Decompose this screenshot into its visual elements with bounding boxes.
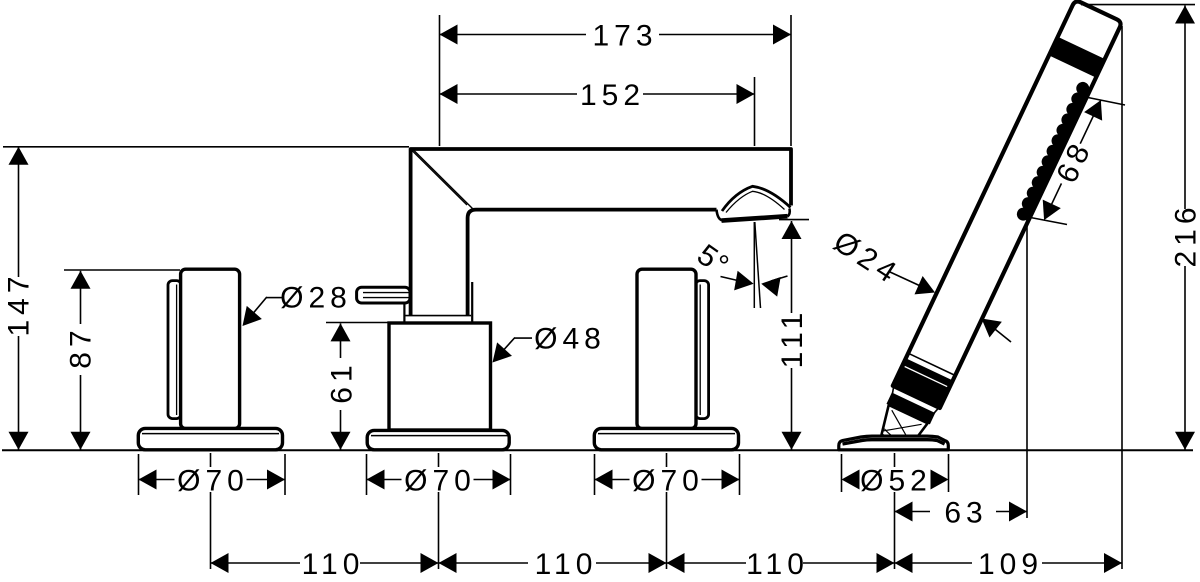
svg-text:152: 152 bbox=[580, 79, 645, 112]
svg-text:63: 63 bbox=[944, 497, 987, 530]
svg-text:Ø52: Ø52 bbox=[860, 465, 932, 498]
svg-text:109: 109 bbox=[978, 548, 1043, 581]
svg-text:111: 111 bbox=[776, 308, 809, 369]
svg-text:Ø70: Ø70 bbox=[404, 465, 476, 498]
svg-text:Ø48: Ø48 bbox=[534, 323, 606, 356]
svg-text:61: 61 bbox=[326, 360, 359, 403]
svg-text:Ø70: Ø70 bbox=[632, 465, 704, 498]
svg-text:Ø28: Ø28 bbox=[280, 282, 352, 315]
svg-text:110: 110 bbox=[302, 548, 365, 581]
svg-text:Ø70: Ø70 bbox=[177, 465, 249, 498]
svg-text:87: 87 bbox=[65, 325, 98, 368]
svg-text:110: 110 bbox=[746, 548, 809, 581]
svg-text:173: 173 bbox=[592, 20, 657, 53]
svg-text:110: 110 bbox=[535, 548, 598, 581]
svg-text:216: 216 bbox=[1170, 202, 1200, 267]
svg-text:147: 147 bbox=[3, 271, 36, 336]
